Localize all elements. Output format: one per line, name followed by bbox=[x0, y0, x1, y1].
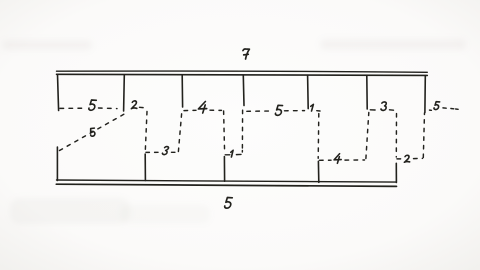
label 5 left bbox=[89, 100, 97, 110]
label 4 large bbox=[198, 102, 208, 114]
top tooth at centre bbox=[242, 76, 245, 106]
bottom tooth 4 bbox=[317, 161, 319, 182]
top-right end post bbox=[424, 76, 426, 113]
label 5 right bbox=[434, 102, 440, 110]
bottom rail 5 lower line bbox=[56, 184, 396, 186]
dashed wire 5 middle horizontal bbox=[247, 110, 305, 113]
top-left end post bbox=[58, 75, 59, 111]
label 4 lower bbox=[334, 154, 342, 164]
dashed stub right of label 2 bbox=[140, 106, 146, 109]
top tooth between 2 and 4 bbox=[181, 75, 183, 107]
faint scan mottling top-left bbox=[2, 39, 466, 224]
label 3 lower left bbox=[162, 147, 169, 155]
top rail 7 lower line bbox=[57, 74, 428, 75]
dashed vertical down to right bottom post bbox=[395, 114, 397, 157]
label 1 lower bbox=[230, 150, 233, 157]
label 2 upper left bbox=[131, 101, 137, 109]
bottom-right end post bbox=[395, 163, 397, 182]
dashed wire 5 right horizontal bbox=[443, 107, 446, 109]
dashed vertical down to tooth 4 bbox=[317, 114, 320, 159]
dashed stub right of tooth 3 bbox=[370, 109, 375, 111]
bottom rail 5 upper line bbox=[57, 180, 397, 182]
dashed vertical up to tooth near 4 bbox=[178, 109, 182, 151]
dashed wire 5 left horizontal bbox=[60, 107, 117, 110]
dashed vertical down to tooth 3 bbox=[145, 112, 147, 152]
dashed vertical up to tooth 3 bbox=[366, 113, 369, 159]
dashed wire 4 top horizontal bbox=[184, 109, 222, 111]
top tooth 1 bbox=[307, 76, 310, 109]
dashed stub right of label 3 upper bbox=[390, 109, 397, 112]
dashed stub right of label 1 upper bbox=[317, 110, 320, 112]
label 3 upper bbox=[381, 102, 387, 110]
dashed vertical up beside centre tooth bbox=[241, 109, 243, 148]
label 7 bbox=[242, 49, 249, 59]
top tooth 3 bbox=[366, 76, 368, 109]
label 1 upper bbox=[310, 104, 313, 111]
label 5 diagonal bbox=[90, 128, 96, 137]
dashed wire 3 horizontal bbox=[146, 151, 178, 153]
bottom-left post bbox=[56, 147, 58, 181]
dashed wire 2 bottom horizontal bbox=[397, 157, 423, 160]
dashed wire 4 bottom horizontal bbox=[320, 159, 365, 161]
dashed diagonal wire 5 bbox=[60, 112, 128, 150]
bottom tooth 1 bbox=[223, 157, 225, 182]
label 5 middle bbox=[275, 105, 282, 115]
dashed vertical up beside right end post bbox=[423, 113, 424, 158]
dashed vertical down to tooth 1 bbox=[224, 111, 225, 152]
dashed hook right of label 1 bbox=[236, 151, 242, 155]
top rail 7 upper line bbox=[57, 71, 428, 72]
dashed stub right of end post bbox=[430, 109, 432, 111]
label 5 bottom bbox=[224, 198, 232, 209]
dashed stub right of tooth 1 top bbox=[225, 154, 230, 156]
top tooth 2 bbox=[123, 75, 126, 111]
label 2 lower bbox=[404, 155, 410, 162]
bottom tooth 3 bbox=[144, 154, 146, 181]
